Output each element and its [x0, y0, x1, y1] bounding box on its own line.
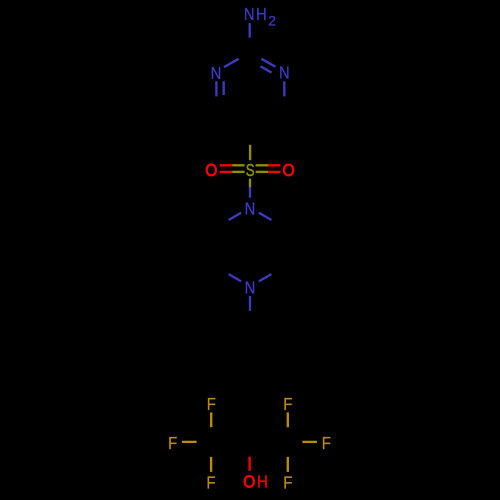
bond C2=N3 inner line (N half) [261, 66, 272, 72]
bond S=O right, lower line (O half) [268, 171, 280, 173]
bond N1=C6 inner line (N half) [223, 81, 225, 95]
bond Nbot-chain C (N half) [249, 296, 251, 311]
bond Ntop-C2pip left (N half) [229, 213, 242, 220]
svg-text:O: O [283, 160, 295, 180]
svg-text:O: O [205, 160, 217, 180]
bond CF3left-Ftl (F half) [210, 412, 212, 427]
svg-text:F: F [206, 473, 215, 492]
bond Nbot-C3pip left (N half) [229, 274, 242, 281]
bond C5-S (S half) [249, 145, 251, 160]
bond CF3right-Fbr (F half) [287, 457, 289, 472]
bond S=O right, lower line (S half) [256, 171, 268, 173]
svg-text:F: F [322, 434, 331, 453]
bond Ccentral-OH (O half) [248, 457, 250, 471]
svg-text:H: H [257, 473, 268, 492]
svg-text:O: O [243, 472, 255, 492]
svg-text:F: F [207, 395, 216, 414]
atom label OH (hydroxyl) [243, 472, 268, 492]
bond CF3left-Fbl (F half) [210, 457, 212, 472]
svg-text:S: S [246, 161, 255, 180]
svg-text:N: N [245, 199, 256, 218]
bond Nbot-C5pip right (N half) [259, 274, 272, 281]
bond C2=N3 outer line (N half) [261, 59, 275, 67]
svg-text:H: H [256, 5, 267, 24]
svg-text:F: F [168, 434, 177, 453]
bond CF3right-Fr (F half) [302, 441, 317, 443]
svg-text:N: N [245, 278, 256, 297]
bond NH2-C2 (N half) [249, 23, 251, 38]
bond CF3right-Ftr (F half) [287, 412, 289, 427]
bond C2-N1 (N half) [224, 59, 239, 67]
bond S-N piperazine (S half) [249, 179, 251, 188]
svg-text:N: N [244, 5, 255, 24]
svg-text:N: N [279, 64, 290, 83]
bond S=O right, upper line (O half) [268, 164, 280, 166]
bond S=O left, lower line (O half) [220, 171, 232, 173]
svg-text:F: F [283, 473, 292, 492]
bond S-N piperazine (N half) [249, 187, 251, 197]
svg-text:2: 2 [268, 13, 276, 29]
bond S=O left, upper line (O half) [220, 164, 232, 166]
svg-text:F: F [283, 395, 292, 414]
atom label NH2 (amine nitrogen) [244, 5, 276, 29]
bond CF3left-Fl (F half) [182, 441, 197, 443]
bond S=O left, upper line (S half) [232, 164, 244, 166]
bond Ntop-C6pip right (N half) [259, 213, 272, 220]
svg-text:N: N [211, 64, 222, 83]
bond N1=C6 outer line (N half) [215, 81, 217, 96]
bond N3-C4 (N half) [283, 81, 285, 96]
bond S=O left, lower line (S half) [232, 171, 244, 173]
bond S=O right, upper line (S half) [256, 164, 268, 166]
